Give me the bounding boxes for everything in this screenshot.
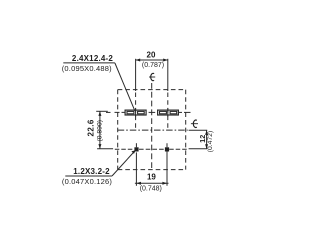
svg-text:22.6: 22.6 (86, 119, 95, 136)
svg-text:(0.787): (0.787) (142, 62, 164, 69)
svg-text:19: 19 (147, 173, 156, 182)
svg-text:2.4X12.4-2: 2.4X12.4-2 (72, 54, 113, 63)
svg-text:(0.472): (0.472) (207, 131, 214, 153)
svg-text:(0.095X0.488): (0.095X0.488) (62, 64, 112, 73)
svg-text:20: 20 (147, 51, 156, 60)
svg-text:1.2X3.2-2: 1.2X3.2-2 (73, 167, 110, 176)
svg-text:12: 12 (198, 135, 207, 143)
svg-text:(0.047X0.126): (0.047X0.126) (62, 177, 112, 186)
svg-text:(0.748): (0.748) (140, 186, 162, 193)
svg-text:(0.890): (0.890) (96, 120, 103, 142)
